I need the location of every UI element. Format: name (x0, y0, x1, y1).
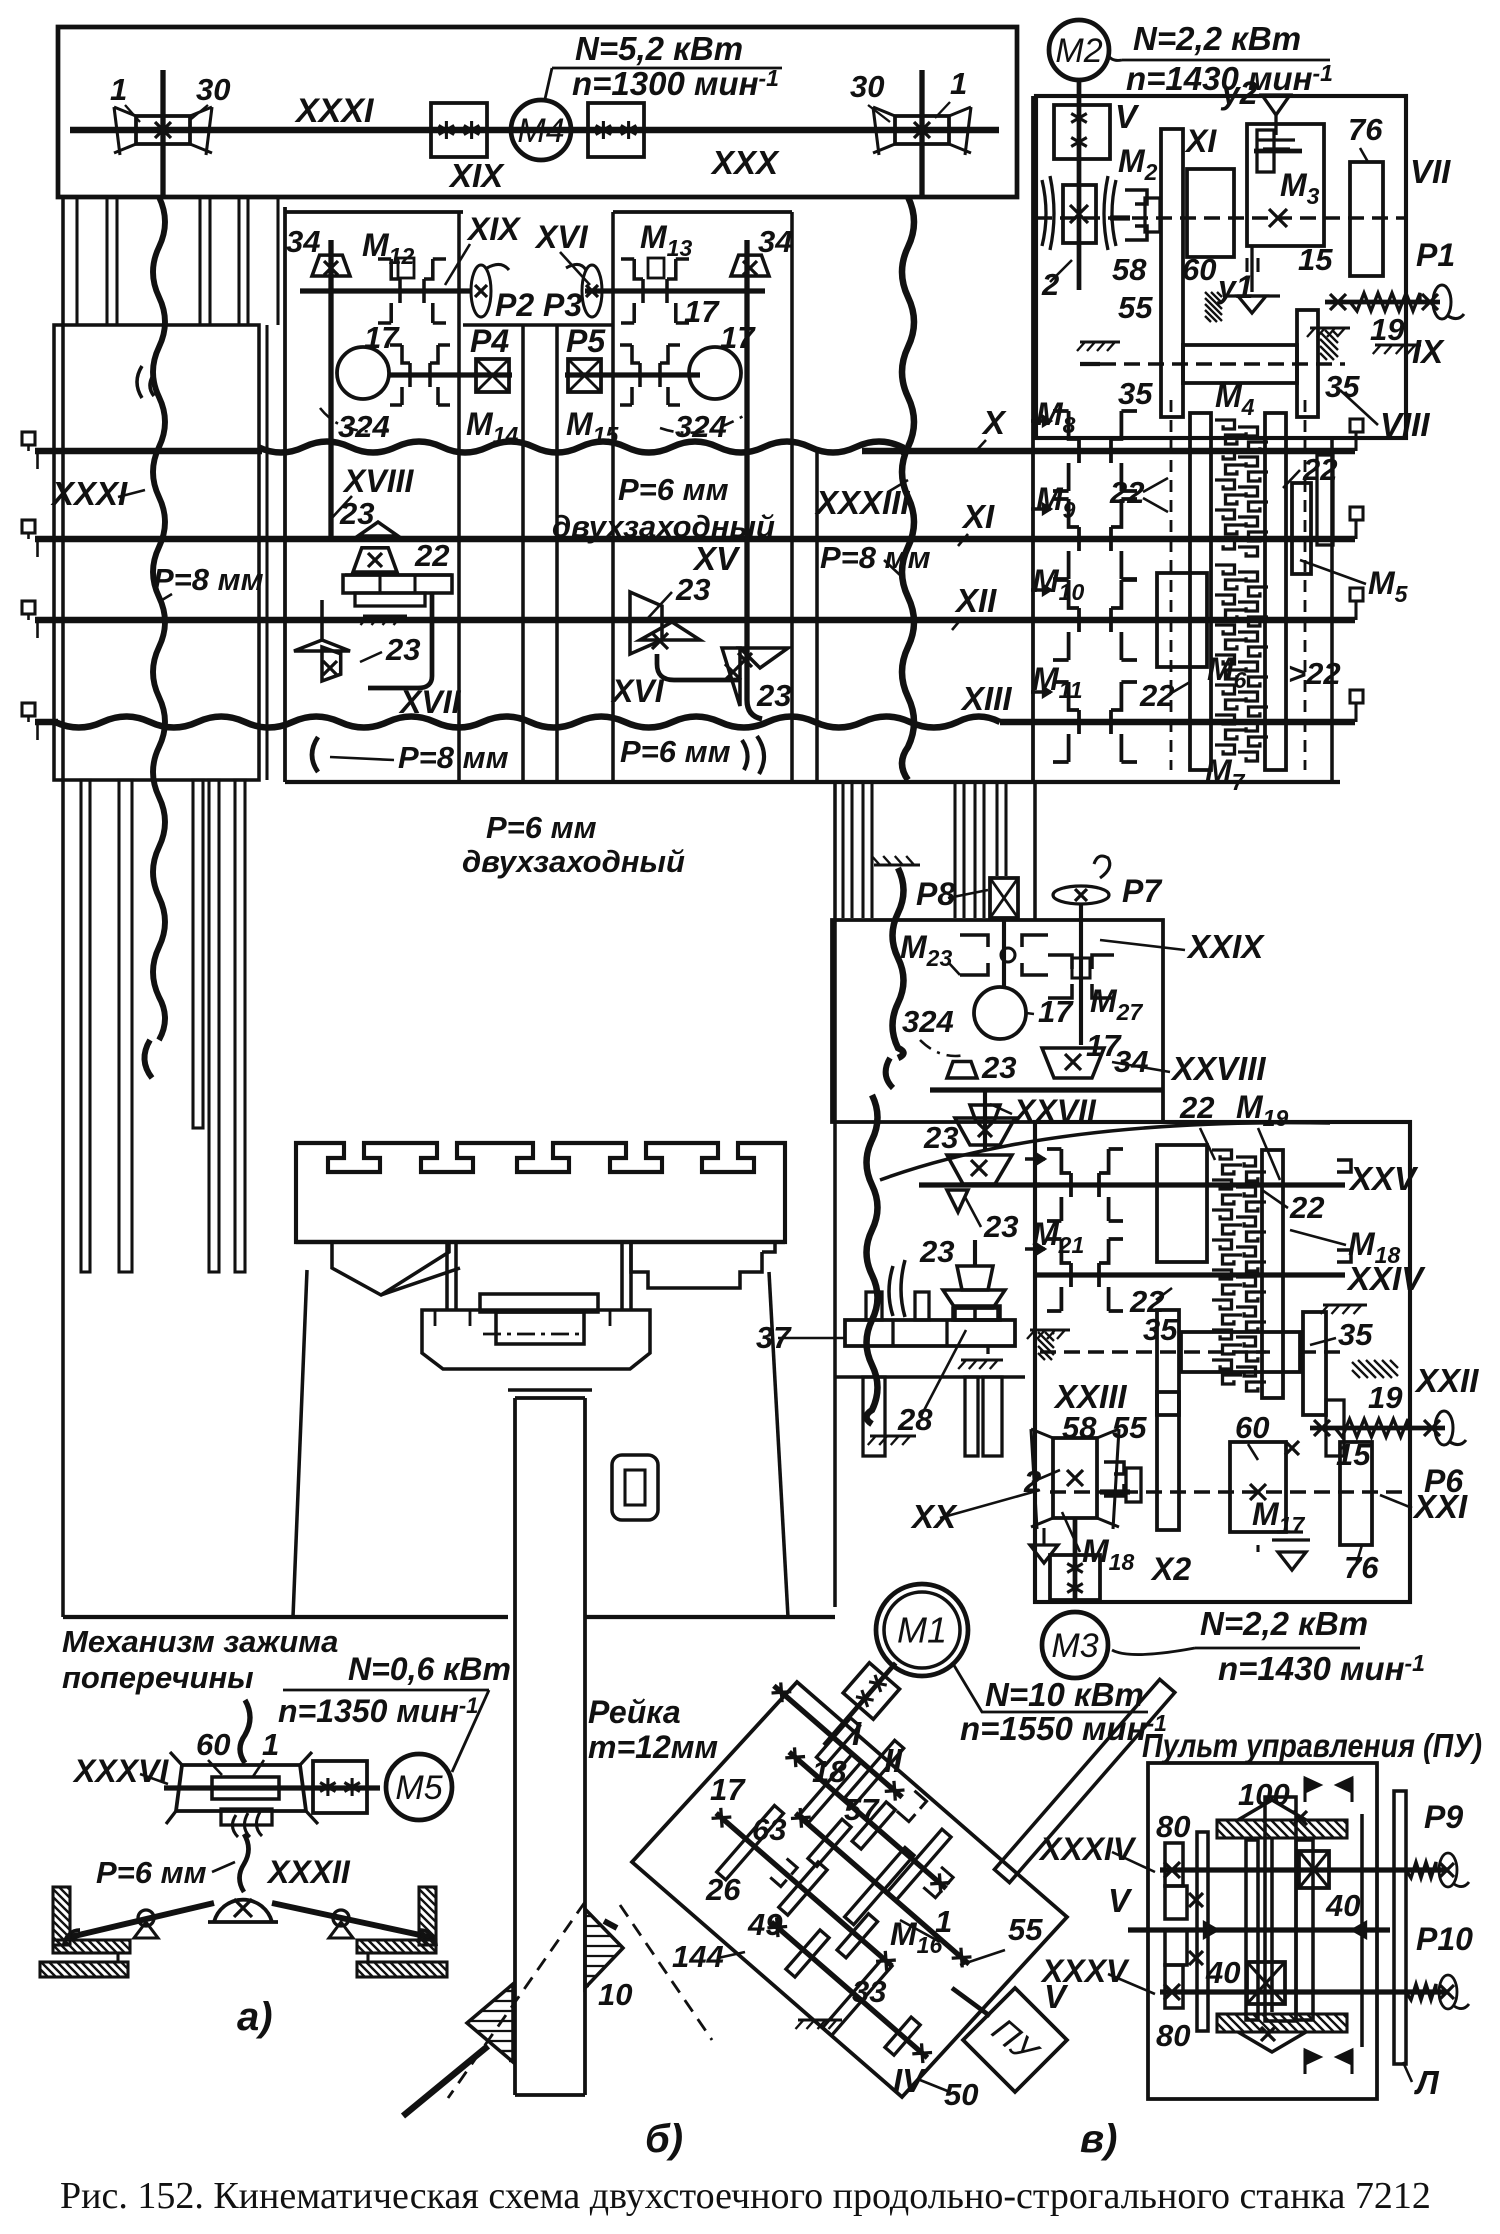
svg-text:n=1550 мин-1: n=1550 мин-1 (960, 1710, 1167, 1747)
svg-text:P8: P8 (916, 876, 955, 912)
svg-text:80: 80 (1156, 2018, 1190, 2053)
svg-text:35: 35 (1338, 1317, 1373, 1352)
svg-text:m=12мм: m=12мм (588, 1729, 718, 1765)
svg-text:P=6 мм: P=6 мм (618, 472, 729, 507)
svg-text:60: 60 (1182, 252, 1216, 287)
svg-text:M5: M5 (395, 1769, 442, 1807)
svg-text:XXII: XXII (1414, 1362, 1479, 1399)
svg-text:Л: Л (1414, 2064, 1440, 2101)
svg-text:22: 22 (1289, 1190, 1324, 1225)
svg-text:30: 30 (196, 72, 230, 107)
svg-text:P=6 мм: P=6 мм (96, 1855, 207, 1890)
svg-text:2: 2 (1041, 267, 1059, 302)
svg-text:XVI: XVI (534, 219, 589, 255)
svg-text:N=10 кВт: N=10 кВт (985, 1676, 1144, 1713)
svg-text:55: 55 (1008, 1912, 1043, 1947)
svg-text:34: 34 (758, 224, 792, 259)
svg-text:Рейка: Рейка (588, 1694, 681, 1730)
svg-text:XXX: XXX (710, 144, 780, 181)
svg-text:35: 35 (1143, 1312, 1178, 1347)
svg-text:XXI: XXI (1412, 1488, 1468, 1525)
svg-text:M3: M3 (1051, 1627, 1098, 1665)
svg-text:55: 55 (1118, 290, 1153, 325)
svg-text:22: 22 (1302, 452, 1337, 487)
svg-text:28: 28 (897, 1402, 933, 1437)
svg-text:XXVIII: XXVIII (1170, 1050, 1266, 1087)
svg-text:а): а) (237, 1995, 273, 2039)
svg-text:58: 58 (1112, 252, 1147, 287)
svg-text:35: 35 (1325, 369, 1360, 404)
svg-text:23: 23 (983, 1209, 1018, 1244)
svg-text:40: 40 (1205, 1955, 1240, 1990)
svg-text:63: 63 (752, 1812, 786, 1847)
svg-text:XXXII: XXXII (266, 1854, 351, 1890)
svg-text:M2: M2 (1055, 32, 1102, 70)
svg-text:поперечины: поперечины (62, 1660, 254, 1695)
svg-text:XI: XI (1184, 123, 1217, 159)
svg-text:P=6 мм: P=6 мм (486, 810, 597, 845)
svg-text:1: 1 (110, 72, 127, 107)
svg-text:XXXV: XXXV (1040, 1953, 1130, 1989)
svg-text:P=6 мм: P=6 мм (620, 734, 731, 769)
svg-text:324: 324 (675, 409, 727, 444)
svg-text:n=1430 мин-1: n=1430 мин-1 (1218, 1650, 1425, 1687)
svg-text:1: 1 (950, 66, 967, 101)
svg-text:XIII: XIII (960, 680, 1012, 717)
svg-text:34: 34 (286, 224, 320, 259)
svg-text:P=8 мм: P=8 мм (820, 540, 931, 575)
svg-text:15: 15 (1298, 242, 1333, 277)
svg-text:Пульт управления (ПУ): Пульт управления (ПУ) (1142, 1727, 1482, 1764)
svg-text:IX: IX (1412, 333, 1445, 370)
svg-text:22: 22 (414, 538, 449, 573)
svg-text:N=2,2 кВт: N=2,2 кВт (1200, 1605, 1368, 1642)
svg-text:P=8 мм: P=8 мм (398, 740, 509, 775)
svg-text:двухзаходный: двухзаходный (462, 844, 685, 879)
svg-text:XVI: XVI (610, 673, 665, 709)
svg-text:VII: VII (1410, 153, 1451, 190)
svg-text:17: 17 (720, 320, 756, 355)
svg-text:б): б) (645, 2117, 683, 2161)
svg-text:P2 P3: P2 P3 (495, 287, 582, 323)
svg-text:P5: P5 (566, 323, 606, 359)
svg-text:I: I (852, 1715, 862, 1752)
svg-text:17: 17 (364, 320, 400, 355)
svg-text:17: 17 (1038, 994, 1074, 1029)
svg-text:XVII: XVII (398, 684, 462, 720)
svg-text:XX: XX (910, 1498, 958, 1535)
svg-text:50: 50 (944, 2077, 978, 2112)
svg-text:324: 324 (902, 1004, 954, 1039)
svg-text:P9: P9 (1424, 1799, 1463, 1835)
svg-text:y2: y2 (1220, 75, 1258, 111)
svg-text:II: II (884, 1742, 903, 1779)
svg-text:M4: M4 (517, 112, 564, 150)
svg-text:23: 23 (919, 1234, 954, 1269)
svg-text:22: 22 (1109, 475, 1144, 510)
svg-text:1: 1 (935, 1904, 952, 1939)
svg-text:N=5,2 кВт: N=5,2 кВт (575, 30, 743, 67)
svg-text:23: 23 (339, 496, 374, 531)
svg-text:33: 33 (852, 1974, 886, 2009)
svg-text:23: 23 (675, 572, 710, 607)
svg-text:XXXVI: XXXVI (72, 1753, 169, 1789)
svg-text:>22: >22 (1288, 656, 1341, 691)
svg-text:40: 40 (1325, 1888, 1360, 1923)
svg-text:34: 34 (1114, 1044, 1148, 1079)
svg-text:M1: M1 (897, 1610, 947, 1651)
svg-text:23: 23 (923, 1120, 958, 1155)
svg-text:26: 26 (705, 1872, 741, 1907)
svg-text:XXIV: XXIV (1346, 1260, 1426, 1297)
svg-text:N=2,2 кВт: N=2,2 кВт (1133, 20, 1301, 57)
svg-text:10: 10 (598, 1977, 632, 2012)
svg-text:n=1300 мин-1: n=1300 мин-1 (572, 65, 779, 102)
svg-text:19: 19 (1368, 1380, 1403, 1415)
svg-text:XXXIV: XXXIV (1038, 1831, 1137, 1867)
svg-text:18: 18 (812, 1754, 847, 1789)
svg-text:76: 76 (1344, 1550, 1379, 1585)
svg-text:P1: P1 (1416, 237, 1455, 273)
svg-text:60: 60 (196, 1727, 230, 1762)
svg-text:XXXIII: XXXIII (814, 484, 910, 521)
svg-text:60: 60 (1235, 1410, 1269, 1445)
svg-text:V: V (1115, 98, 1140, 135)
svg-text:Рис. 152. Кинематическая схема: Рис. 152. Кинематическая схема двухстоеч… (60, 2175, 1431, 2217)
svg-text:N=0,6 кВт: N=0,6 кВт (348, 1651, 511, 1687)
svg-text:XXV: XXV (1348, 1160, 1419, 1197)
svg-text:23: 23 (385, 632, 420, 667)
svg-text:76: 76 (1348, 112, 1383, 147)
svg-text:Механизм зажима: Механизм зажима (62, 1624, 338, 1659)
svg-text:35: 35 (1118, 376, 1153, 411)
svg-text:XIX: XIX (466, 211, 521, 247)
svg-text:XII: XII (954, 582, 997, 619)
svg-text:22: 22 (1179, 1090, 1214, 1125)
svg-text:80: 80 (1156, 1809, 1190, 1844)
svg-text:P10: P10 (1416, 1921, 1473, 1957)
svg-text:23: 23 (981, 1050, 1016, 1085)
svg-text:P7: P7 (1122, 873, 1163, 909)
svg-text:V: V (1108, 1882, 1133, 1919)
svg-text:57: 57 (844, 1792, 880, 1827)
svg-text:23: 23 (756, 678, 791, 713)
svg-text:двухзаходный: двухзаходный (552, 509, 775, 544)
svg-text:X2: X2 (1150, 1551, 1191, 1587)
svg-text:17: 17 (710, 1772, 746, 1807)
svg-text:XI: XI (961, 498, 995, 535)
svg-text:в): в) (1080, 2117, 1117, 2161)
svg-text:XIX: XIX (448, 157, 505, 194)
svg-text:1: 1 (262, 1727, 279, 1762)
svg-text:19: 19 (1370, 312, 1405, 347)
svg-text:30: 30 (850, 69, 884, 104)
svg-text:XXXI: XXXI (294, 92, 375, 130)
svg-text:XXIX: XXIX (1186, 928, 1265, 965)
svg-text:X: X (981, 404, 1007, 441)
svg-text:49: 49 (747, 1907, 783, 1942)
svg-text:144: 144 (672, 1939, 724, 1974)
svg-text:y1: y1 (1216, 269, 1254, 305)
svg-text:n=1350 мин-1: n=1350 мин-1 (278, 1693, 478, 1729)
svg-text:XXXI: XXXI (50, 475, 128, 512)
svg-text:17: 17 (684, 294, 720, 329)
svg-text:XVIII: XVIII (342, 463, 414, 499)
svg-text:VIII: VIII (1380, 406, 1430, 443)
svg-text:P=8 мм: P=8 мм (153, 562, 264, 597)
svg-text:P4: P4 (470, 323, 509, 359)
